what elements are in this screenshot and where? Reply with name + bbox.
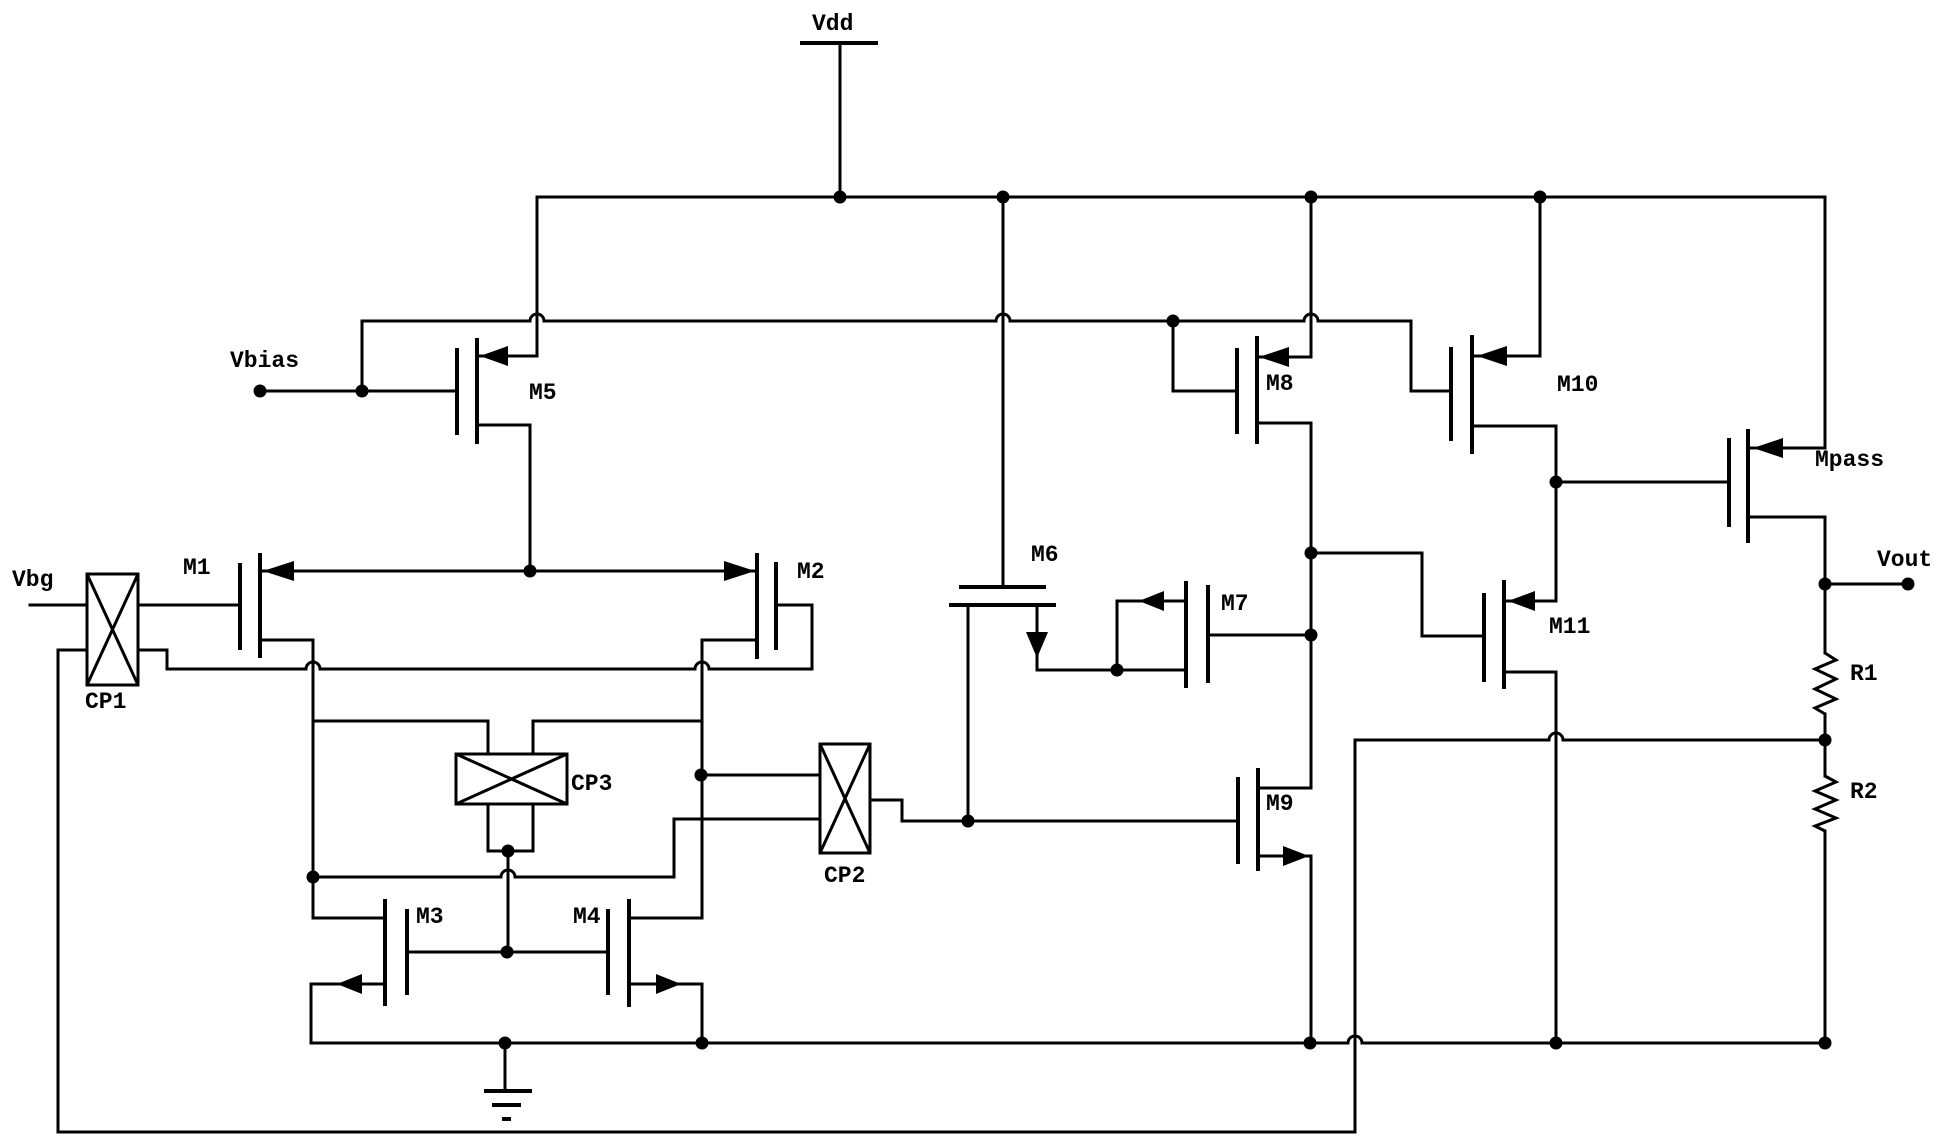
svg-text:Vdd: Vdd [812,11,853,37]
svg-text:Vout: Vout [1877,547,1932,573]
svg-text:Vbias: Vbias [230,348,299,374]
svg-text:M3: M3 [416,904,444,930]
svg-text:M9: M9 [1266,791,1294,817]
svg-text:M8: M8 [1266,371,1294,397]
svg-text:M6: M6 [1031,542,1059,568]
svg-text:M10: M10 [1557,372,1598,398]
svg-text:M11: M11 [1549,614,1590,640]
svg-text:M4: M4 [573,904,601,930]
svg-text:M5: M5 [529,380,557,406]
svg-text:M7: M7 [1221,591,1249,617]
svg-text:Vbg: Vbg [12,567,53,593]
svg-text:CP3: CP3 [571,771,612,797]
svg-text:M1: M1 [183,555,211,581]
svg-text:CP1: CP1 [85,689,126,715]
svg-text:M2: M2 [797,559,825,585]
svg-text:R1: R1 [1850,661,1878,687]
svg-text:CP2: CP2 [824,863,865,889]
svg-text:R2: R2 [1850,779,1878,805]
svg-text:Mpass: Mpass [1815,447,1884,473]
